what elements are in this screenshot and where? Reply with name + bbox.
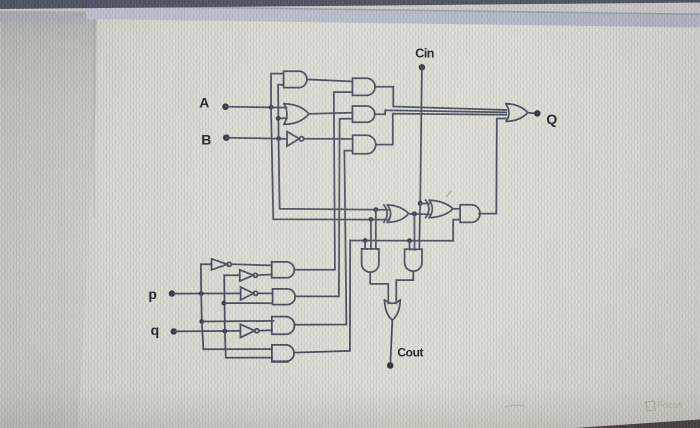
not-gate NOT2 (p inverter top) [212,259,232,270]
wire AND4 output to OR-Q bottom [376,114,506,145]
wire NOT2 output to B1 upper input [232,264,272,265]
wire XOR2 output to AND6 [453,208,460,210]
wire NOT4 output to B2 upper input [258,292,273,294]
xor-gate XOR1 (A XOR B) [384,205,409,222]
wire OR-down output to Cout [390,320,392,365]
junction XOR1 lower input branch [369,217,374,222]
wire p to B3 upper input [202,320,274,323]
wire A up to AND1 [271,74,284,108]
wire B up to OR1 and AND1 [278,85,284,139]
wire OR-Q output [528,112,535,115]
wire A input line [226,106,287,109]
not-gate NOT5 (q inverter bottom) [240,324,259,337]
wire branch down to AND-D2 pin2 [413,214,415,250]
and-gate AND1 (A AND B) [284,71,307,87]
wire q to B2 lower input [224,302,273,304]
junction XOR1 upper input branch [373,207,378,212]
or-gate OR-down (carry OR, downward) [385,300,401,320]
not-gate NOT3 (q inverter) [240,270,258,281]
wire Cin vertical [420,67,422,203]
wire q input line to NOT5 [174,330,241,333]
wire branch down to AND-D2 pin1 [409,241,411,250]
wire riser B1 output to AND2 lower input [294,92,352,270]
and-gate AND6 [460,205,480,223]
junction p branch [199,291,204,296]
wire riser B2 output to AND3 lower input [295,119,352,297]
junction net241 to D2 [407,238,412,243]
wire branch down to AND-D1 pin1 [364,241,366,250]
wire riser B3 output to AND4 lower input [294,151,352,325]
not-gate NOT4 (p inverter mid) [241,287,258,300]
wire p up to NOT2 [201,264,212,293]
wire NOT3 output to B1 lower input [258,273,272,276]
wire NOT1 output to AND4 [304,138,353,140]
junction net241 to D1 [363,238,368,243]
junction B branch [276,136,281,141]
node p [169,290,175,296]
wire B input line [226,138,287,139]
and-gate B1 (notp AND notq) [272,262,295,278]
wire OR1 lower input stub [278,117,287,119]
and-gate AND4 [353,135,376,154]
junction Cin at XOR2 [418,201,423,206]
or-gate OR-Q (4-input output OR) [506,104,528,122]
not-gate NOT1 (on B) [287,132,304,147]
wire AND6 lower input from net241 [453,220,460,241]
and-gate D2 (3-input, downward) [405,249,422,271]
wire p down to B4 upper input [202,322,272,350]
node B [223,134,230,141]
wire q up to NOT3 [224,275,240,331]
node Cout [387,362,394,369]
and-gate B4 (p AND q) [272,345,294,362]
wire Cin to XOR2 upper input [420,202,429,204]
wire XOR1 output to XOR2 lower input [409,213,430,216]
junction A branch [269,105,274,110]
wire B4 output riser to net241 [294,241,350,353]
wire q down to B4 lower input [225,331,272,358]
node Cin [419,64,425,70]
junction q branch [223,329,228,334]
junction OR1 lower input [276,116,281,121]
wire D1 output to OR-down left input [370,272,388,303]
and-gate B2 (notp AND q) [273,289,296,305]
wire Cin down to AND-D2 pin3 [418,203,421,249]
junction q to B2 [221,301,226,306]
and-gate D1 (3-input, downward) [362,249,379,272]
node q [171,328,177,334]
wire branch down to AND-D1 pin3 [375,210,377,249]
and-gate B3 (p AND notq) [272,317,295,335]
wire AND2 output to OR-Q top [375,87,506,110]
thick bottom edge of B4 [272,360,287,362]
wire branch down to AND-D1 pin2 [370,219,372,249]
wire B down to XOR1 upper input [279,139,388,210]
xor-gate XOR2 (XOR1 XOR Cin) [426,200,453,217]
faint scratch bottom [505,405,524,407]
wire OR1 output to AND3 [309,113,353,114]
wire AND1 output to AND2 [307,79,353,81]
and-gate AND3 [352,106,374,122]
stray mark [447,192,451,197]
wire A down to XOR1 lower input [271,107,388,219]
and-gate AND2 [352,78,375,95]
junction p to B3 [199,319,204,324]
wire p input line to NOT4 [172,292,241,294]
junction XOR1 output branch [412,211,417,216]
node Q [534,110,541,117]
wire AND3 output to OR-Q middle [375,110,506,114]
or-gate OR1 (A OR B) [284,104,309,125]
wire AND6 output up to OR-Q 4th input [479,119,506,214]
node A [222,103,229,110]
wire net241 horizontal (B4 to AND6) [350,240,453,242]
wire D2 output to OR-down right input [396,271,413,303]
wire NOT5 output to B3 lower input [259,329,272,332]
wire p down vertical [200,294,203,322]
